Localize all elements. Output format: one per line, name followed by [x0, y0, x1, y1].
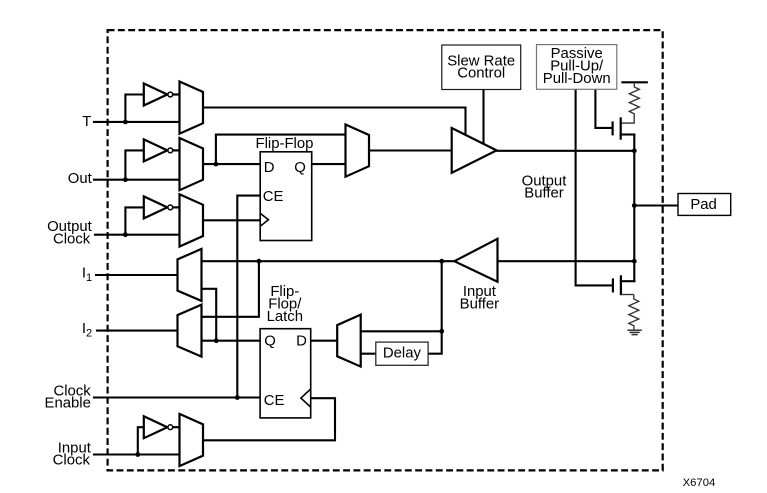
IOB dashed boundary [108, 30, 663, 470]
wire T input [94, 121, 180, 123]
wire T inverter branch [125, 95, 143, 122]
inverter T [144, 84, 180, 106]
svg-text:Clock: Clock [53, 453, 91, 469]
power rail Vcc bar [622, 81, 646, 83]
wire output buffer to pad rail [497, 150, 635, 152]
svg-text:D: D [264, 160, 275, 176]
svg-text:CE: CE [263, 189, 284, 205]
wire Input Clock input [94, 453, 180, 455]
junction dot delay mux input [439, 329, 444, 334]
junction dot buffer output [632, 148, 637, 153]
wire Out inverter branch [125, 150, 143, 179]
svg-text:D: D [296, 333, 307, 349]
wire Out mux output to FF D [203, 163, 261, 165]
junction dot input clock [135, 452, 140, 457]
svg-text:Delay: Delay [383, 346, 422, 362]
wire FF Q to mux [312, 163, 346, 165]
junction dot FF D branch [214, 162, 219, 167]
inverter Output Clock [144, 196, 180, 218]
slew rate control box [442, 45, 521, 90]
mux I1 [178, 249, 202, 301]
junction dot pad [632, 203, 637, 208]
junction dot Out [123, 177, 128, 182]
ground symbol [627, 330, 641, 334]
wire Clock Enable input [94, 396, 260, 398]
wire slew rate control drop [482, 90, 484, 144]
mux delay select [337, 315, 361, 367]
junction dot input direct branch [257, 259, 262, 264]
wire direct input rail to I2 mux [202, 261, 259, 317]
wire pull-down drain [621, 280, 634, 282]
resistor pull-down R2 [621, 295, 639, 331]
wire Output Clock inverter branch [125, 207, 143, 234]
wire input buffer line [498, 260, 635, 262]
junction dot T [123, 120, 128, 125]
output buffer U2 [452, 128, 497, 173]
wire Input Clock inverter branch [138, 427, 144, 454]
wire latch Q output [202, 340, 261, 342]
transistor pull-up Q1 [613, 117, 621, 139]
resistor pull-up R1 [621, 82, 640, 123]
wire input buffer output to I1 mux [202, 260, 455, 262]
svg-text:Clock: Clock [53, 232, 91, 248]
wire FF mux output to output buffer [369, 149, 452, 151]
mux Out [180, 138, 204, 190]
svg-text:Buffer: Buffer [524, 186, 563, 202]
svg-text:Flip-Flop: Flip-Flop [256, 136, 314, 152]
svg-text:Pad: Pad [690, 197, 717, 213]
wire pad connection [634, 204, 678, 206]
mux Input Clock [180, 414, 204, 466]
svg-text:Buffer: Buffer [460, 297, 499, 313]
wire delay branch rail [428, 261, 442, 354]
wire passive box to pull-up gate [595, 89, 611, 128]
svg-text:X6704: X6704 [683, 477, 716, 489]
junction dot input line [632, 259, 637, 264]
svg-text:T: T [82, 114, 91, 130]
flip-flop box U1 [260, 152, 312, 241]
svg-text:Latch: Latch [267, 309, 303, 325]
svg-text:Out: Out [68, 171, 93, 187]
latch clock wedge [301, 389, 311, 407]
inverter Input Clock [144, 416, 180, 438]
wire pull-up drain [621, 133, 635, 135]
pad box [678, 194, 731, 216]
wire I1 output [96, 274, 178, 276]
wire I2 output [97, 330, 178, 332]
svg-text:I2: I2 [82, 321, 92, 339]
wire Out input [94, 179, 180, 181]
wire Input Clock mux to latch clock [203, 398, 335, 440]
wire T mux output to output buffer enable [203, 108, 466, 135]
svg-text:I1: I1 [82, 266, 92, 284]
svg-text:CE: CE [264, 393, 285, 409]
wire FF bypass [216, 135, 346, 165]
junction dot latch Q branch [214, 338, 219, 343]
mux I2 [178, 305, 202, 357]
wire delay box output [361, 353, 376, 355]
mux Output Clock [180, 194, 204, 246]
transistor pull-down Q2 [613, 275, 621, 295]
junction dot delay branch [439, 259, 444, 264]
wire delay mux output to latch D [311, 340, 338, 342]
latch box U3 [260, 329, 311, 418]
wire delay mux top input [361, 330, 442, 332]
svg-text:Enable: Enable [45, 396, 91, 412]
mux FF bypass [346, 125, 370, 177]
wire pad rail vertical [633, 135, 635, 282]
input buffer U4 [454, 239, 497, 282]
wire Output Clock input [95, 234, 180, 236]
svg-text:Q: Q [294, 160, 306, 176]
svg-text:Pull-Down: Pull-Down [543, 71, 611, 87]
flip-flop clock wedge [260, 213, 268, 226]
junction dot Output Clock [123, 232, 128, 237]
junction dot clock enable [235, 395, 240, 400]
svg-text:Q: Q [264, 333, 276, 349]
svg-text:Control: Control [457, 66, 505, 82]
inverter Out [144, 139, 180, 161]
wire latch Q branch to I1 mux [202, 289, 217, 341]
wire Output Clock mux to FF clock [203, 219, 261, 221]
wire CE stub and CE rail [237, 196, 260, 398]
delay box [376, 342, 428, 365]
mux T [180, 82, 204, 134]
wire passive box to pull-down gate [576, 89, 612, 285]
passive pull-up/pull-down box [537, 45, 617, 90]
